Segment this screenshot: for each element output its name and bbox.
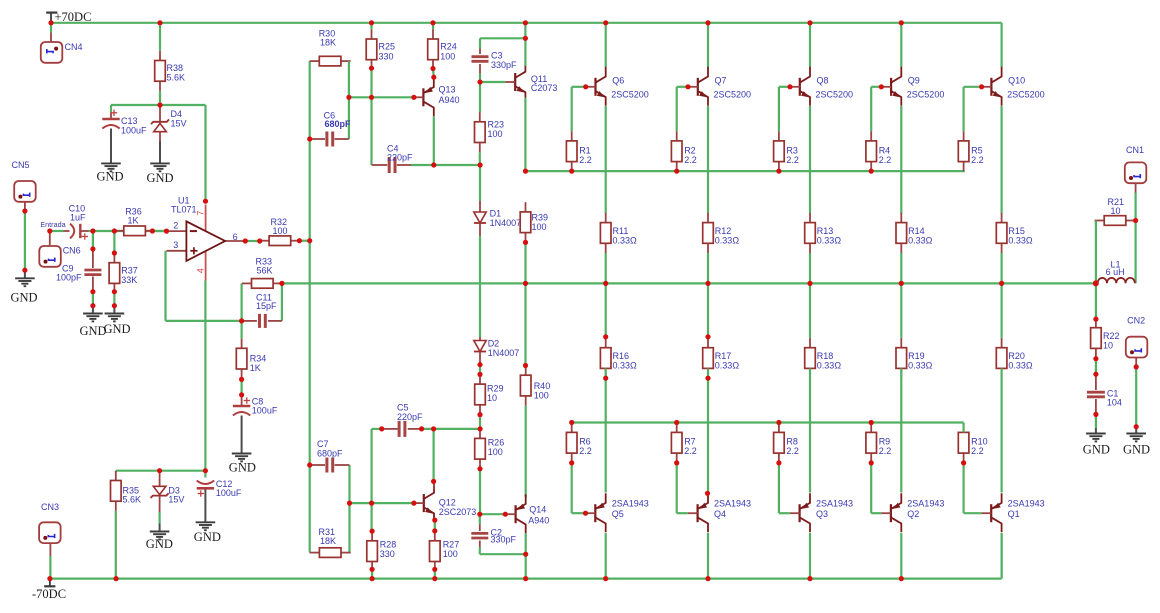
junction xyxy=(431,479,436,484)
svg-text:A940: A940 xyxy=(439,95,460,105)
junction xyxy=(603,376,608,381)
svg-text:GND: GND xyxy=(229,461,256,475)
wire xyxy=(299,240,309,242)
wire xyxy=(348,465,350,553)
junction xyxy=(307,462,312,467)
junction xyxy=(899,281,904,286)
connector CN6 xyxy=(39,231,80,267)
svg-text:R27: R27 xyxy=(443,539,460,549)
transistor Q11 xyxy=(505,62,557,101)
svg-text:100: 100 xyxy=(488,447,503,457)
svg-text:0.33Ω: 0.33Ω xyxy=(715,360,740,370)
wire xyxy=(1095,283,1097,319)
svg-text:R6: R6 xyxy=(579,437,591,447)
svg-text:CN1: CN1 xyxy=(1126,145,1144,155)
svg-text:6 uH: 6 uH xyxy=(1106,267,1125,277)
junction xyxy=(523,20,528,25)
wire xyxy=(434,520,436,531)
wire xyxy=(479,236,481,337)
wire xyxy=(111,104,206,106)
capacitor C7 xyxy=(310,439,350,473)
svg-text:15V: 15V xyxy=(168,494,184,504)
svg-text:2.2: 2.2 xyxy=(879,446,892,456)
junction xyxy=(48,20,53,25)
wire xyxy=(479,152,481,165)
transistor Q7 xyxy=(688,67,751,106)
svg-text:CN3: CN3 xyxy=(41,502,59,512)
svg-text:2SC5200: 2SC5200 xyxy=(816,89,854,99)
svg-text:GND: GND xyxy=(97,170,124,184)
wire xyxy=(1000,106,1002,214)
svg-text:104: 104 xyxy=(1107,397,1122,407)
svg-text:2.2: 2.2 xyxy=(786,155,799,165)
wire xyxy=(50,230,64,232)
ground xyxy=(11,270,38,304)
wire xyxy=(572,463,586,513)
transistor Q10 xyxy=(982,67,1045,106)
svg-text:CN5: CN5 xyxy=(12,160,30,170)
junction xyxy=(603,334,608,339)
svg-text:R5: R5 xyxy=(971,145,983,155)
junction xyxy=(523,36,528,41)
junction xyxy=(346,95,416,100)
junction xyxy=(477,362,482,367)
junction xyxy=(370,567,438,582)
junction xyxy=(1093,280,1099,286)
resistor R22 xyxy=(1091,318,1120,358)
resistor R15 xyxy=(996,213,1033,253)
junction xyxy=(979,84,984,89)
junction xyxy=(807,20,812,25)
connector CN4 xyxy=(41,33,83,63)
wire xyxy=(110,105,112,113)
resistor R37 xyxy=(109,253,138,293)
junction xyxy=(431,162,483,167)
junction xyxy=(369,20,374,25)
capacitor C4 xyxy=(372,143,414,173)
junction xyxy=(674,169,679,174)
resistor R13 xyxy=(805,213,842,253)
svg-text:100uF: 100uF xyxy=(121,125,147,135)
wire xyxy=(1000,368,1002,492)
junction xyxy=(279,281,284,286)
resistor R23 xyxy=(475,112,505,152)
svg-text:7: 7 xyxy=(195,211,205,216)
svg-text:Q8: Q8 xyxy=(817,76,829,86)
resistor R9 xyxy=(866,423,891,463)
resistor R5 xyxy=(958,131,983,171)
svg-text:1uF: 1uF xyxy=(70,212,86,222)
svg-text:3: 3 xyxy=(173,240,178,250)
resistor R30 xyxy=(310,28,351,66)
wire xyxy=(422,428,481,430)
junction xyxy=(869,460,874,465)
connector CN1 xyxy=(1125,145,1147,183)
wire xyxy=(605,23,607,67)
svg-text:18K: 18K xyxy=(320,38,336,48)
svg-text:100pF: 100pF xyxy=(56,272,82,282)
junction xyxy=(776,460,781,465)
svg-text:R34: R34 xyxy=(250,353,267,363)
junction xyxy=(1093,317,1098,322)
svg-text:2SA1943: 2SA1943 xyxy=(816,498,853,508)
resistor R34 xyxy=(236,339,266,379)
wire xyxy=(1095,359,1097,375)
junction xyxy=(47,576,118,581)
svg-text:A940: A940 xyxy=(528,515,549,525)
junction xyxy=(776,169,781,174)
junction xyxy=(961,460,966,465)
resistor R40 xyxy=(520,366,550,406)
junction xyxy=(1134,364,1139,369)
svg-text:Q10: Q10 xyxy=(1008,76,1025,86)
junction xyxy=(307,136,312,141)
junction xyxy=(239,377,244,382)
svg-text:TL071: TL071 xyxy=(171,204,197,214)
junction xyxy=(787,84,792,89)
svg-text:Q6: Q6 xyxy=(612,76,624,86)
wire xyxy=(432,23,434,30)
svg-text:C7: C7 xyxy=(317,439,329,449)
wire xyxy=(370,23,372,30)
junction xyxy=(239,392,244,397)
wire xyxy=(871,463,881,513)
svg-text:0.33Ω: 0.33Ω xyxy=(817,360,842,370)
junction xyxy=(419,426,424,431)
wire xyxy=(707,23,709,67)
junction xyxy=(90,303,95,308)
transistor Q12 xyxy=(414,483,476,522)
svg-text:D2: D2 xyxy=(488,338,500,348)
svg-text:1N4007: 1N4007 xyxy=(490,218,522,228)
wire xyxy=(900,106,902,214)
wire xyxy=(900,368,902,492)
wire xyxy=(707,283,709,338)
svg-text:2.2: 2.2 xyxy=(786,446,799,456)
svg-text:R1: R1 xyxy=(579,145,591,155)
wire xyxy=(809,283,811,338)
svg-text:0.33Ω: 0.33Ω xyxy=(1008,360,1033,370)
resistor R7 xyxy=(671,423,696,463)
wire xyxy=(348,61,350,139)
resistor R18 xyxy=(805,338,842,378)
power terminal +70DC xyxy=(46,10,91,24)
wire xyxy=(113,231,115,253)
resistor R20 xyxy=(996,338,1033,378)
junction xyxy=(47,228,52,233)
junction xyxy=(603,20,608,25)
junction xyxy=(1134,424,1139,429)
wire xyxy=(51,22,1002,24)
svg-text:0.33Ω: 0.33Ω xyxy=(908,360,933,370)
capacitor C8 xyxy=(233,395,278,454)
svg-text:2.2: 2.2 xyxy=(971,446,984,456)
wire xyxy=(900,253,902,284)
wire xyxy=(707,253,709,284)
svg-text:Q1: Q1 xyxy=(1008,509,1020,519)
resistor R16 xyxy=(600,338,637,378)
wire xyxy=(524,243,526,366)
diode D4 xyxy=(151,105,187,163)
svg-text:220pF: 220pF xyxy=(387,153,413,163)
wire xyxy=(241,379,243,394)
svg-text:15V: 15V xyxy=(171,118,187,128)
svg-text:Q13: Q13 xyxy=(439,84,456,94)
junction xyxy=(430,20,435,25)
svg-text:10: 10 xyxy=(1111,206,1121,216)
resistor R27 xyxy=(430,531,460,571)
svg-text:GND: GND xyxy=(1083,442,1110,456)
power terminal -70DC xyxy=(32,579,66,601)
capacitor C3 xyxy=(472,49,518,83)
wire xyxy=(432,69,435,78)
svg-text:2SC5200: 2SC5200 xyxy=(1007,89,1045,99)
junction xyxy=(239,318,244,323)
svg-text:C2073: C2073 xyxy=(531,83,558,93)
diode D2 xyxy=(474,337,519,365)
resistor R10 xyxy=(958,423,987,463)
resistor R28 xyxy=(367,531,397,571)
junction xyxy=(776,420,781,425)
wire xyxy=(152,230,166,232)
junction xyxy=(431,426,436,431)
junction xyxy=(523,169,528,174)
svg-text:GND: GND xyxy=(147,171,174,185)
svg-text:D4: D4 xyxy=(171,109,183,119)
junction xyxy=(807,281,812,286)
svg-text:2SA1943: 2SA1943 xyxy=(714,498,751,508)
svg-text:1N4007: 1N4007 xyxy=(488,348,520,358)
wire xyxy=(24,202,26,270)
wire xyxy=(572,87,586,131)
svg-text:CN4: CN4 xyxy=(65,42,83,52)
svg-text:2.2: 2.2 xyxy=(879,155,892,165)
resistor R17 xyxy=(703,338,740,378)
transistor Q6 xyxy=(586,67,649,106)
transistor Q1 xyxy=(981,493,1044,532)
svg-text:R39: R39 xyxy=(532,212,549,222)
junction xyxy=(432,528,437,533)
capacitor C5 xyxy=(382,402,423,437)
resistor R8 xyxy=(774,423,799,463)
wire xyxy=(480,38,525,48)
svg-text:15pF: 15pF xyxy=(256,301,277,311)
junction xyxy=(369,66,374,71)
wire xyxy=(433,116,435,165)
svg-text:Q12: Q12 xyxy=(439,497,456,507)
resistor R36 xyxy=(114,206,155,235)
svg-text:GND: GND xyxy=(146,537,173,551)
wire xyxy=(480,81,505,83)
svg-text:56K: 56K xyxy=(257,265,273,275)
svg-text:100: 100 xyxy=(440,51,455,61)
svg-text:2SC2073: 2SC2073 xyxy=(439,507,477,517)
junction xyxy=(1093,412,1098,417)
wire xyxy=(479,415,481,429)
wire xyxy=(900,533,902,579)
resistor R6 xyxy=(566,423,591,463)
wire xyxy=(281,283,283,321)
wire xyxy=(900,283,902,338)
wire xyxy=(479,469,481,514)
wire xyxy=(166,251,242,321)
capacitor C11 xyxy=(242,292,282,328)
svg-text:2: 2 xyxy=(173,220,178,230)
svg-text:4: 4 xyxy=(195,268,205,273)
svg-text:-70DC: -70DC xyxy=(32,587,66,601)
junction xyxy=(705,281,710,286)
resistor R29 xyxy=(475,374,504,414)
ground xyxy=(147,163,174,184)
capacitor C12 xyxy=(197,471,242,523)
svg-text:Q3: Q3 xyxy=(816,509,828,519)
wire xyxy=(113,292,115,306)
wire xyxy=(524,98,526,172)
wire xyxy=(964,463,982,513)
junction xyxy=(869,420,874,425)
junction xyxy=(685,84,690,89)
svg-text:R29: R29 xyxy=(487,383,504,393)
svg-text:0.33Ω: 0.33Ω xyxy=(817,235,842,245)
capacitor C10 xyxy=(64,203,89,239)
transistor Q3 xyxy=(790,493,853,532)
resistor R19 xyxy=(896,338,933,378)
wire xyxy=(241,321,243,339)
resistor R39 xyxy=(520,202,548,242)
svg-text:100: 100 xyxy=(534,390,549,400)
junction xyxy=(503,512,508,517)
junction xyxy=(157,20,162,25)
svg-text:1K: 1K xyxy=(128,215,139,225)
junction xyxy=(112,289,117,294)
transistor Q5 xyxy=(586,493,649,532)
wire xyxy=(525,406,527,498)
junction xyxy=(523,552,528,582)
svg-text:GND: GND xyxy=(1123,442,1150,456)
wire xyxy=(779,87,790,131)
wire xyxy=(572,423,964,433)
resistor R24 xyxy=(428,29,457,69)
wire xyxy=(204,105,206,201)
svg-text:R10: R10 xyxy=(971,437,988,447)
junction xyxy=(370,529,375,534)
svg-text:2SC5200: 2SC5200 xyxy=(611,89,649,99)
wire xyxy=(372,571,435,578)
svg-text:2.2: 2.2 xyxy=(579,446,592,456)
junction xyxy=(90,289,95,294)
wire xyxy=(479,365,481,375)
svg-text:R38: R38 xyxy=(167,63,184,73)
junction xyxy=(569,420,574,425)
junction xyxy=(369,501,374,506)
wire xyxy=(900,23,902,67)
svg-text:1K: 1K xyxy=(250,363,261,373)
junction xyxy=(430,66,435,71)
ground xyxy=(80,306,107,338)
wire xyxy=(1000,283,1002,338)
svg-text:R26: R26 xyxy=(488,437,505,447)
junction xyxy=(411,501,416,506)
wire xyxy=(1135,183,1137,283)
svg-text:R2: R2 xyxy=(684,145,696,155)
wire xyxy=(309,61,311,552)
svg-text:2.2: 2.2 xyxy=(971,155,984,165)
svg-text:Q14: Q14 xyxy=(529,504,546,514)
wire xyxy=(707,106,709,214)
svg-text:0.33Ω: 0.33Ω xyxy=(613,360,638,370)
svg-text:330: 330 xyxy=(379,51,394,61)
wire xyxy=(525,533,527,578)
junction xyxy=(22,208,27,272)
wire xyxy=(479,165,481,201)
svg-text:0.33Ω: 0.33Ω xyxy=(908,235,933,245)
wire xyxy=(349,96,414,98)
resistor R1 xyxy=(566,131,591,171)
wire xyxy=(707,533,709,579)
svg-text:680pF: 680pF xyxy=(317,448,343,458)
wire xyxy=(605,368,607,492)
junction xyxy=(90,246,95,251)
junction xyxy=(899,20,904,25)
svg-text:GND: GND xyxy=(104,322,131,336)
junction xyxy=(999,281,1004,286)
svg-text:18K: 18K xyxy=(320,536,336,546)
svg-text:100: 100 xyxy=(273,226,288,236)
svg-text:33K: 33K xyxy=(121,275,137,285)
resistor R26 xyxy=(475,429,505,469)
resistor R32 xyxy=(259,217,300,245)
svg-text:Q4: Q4 xyxy=(714,509,726,519)
capacitor C9 xyxy=(56,249,101,292)
wire xyxy=(241,283,243,321)
junction xyxy=(705,376,710,381)
junction xyxy=(379,426,384,431)
capacitor C6 xyxy=(310,110,351,146)
wire xyxy=(116,470,206,472)
wire xyxy=(526,170,965,172)
junction xyxy=(157,102,162,107)
junction xyxy=(583,84,588,89)
junction xyxy=(705,491,710,496)
svg-text:R3: R3 xyxy=(786,145,798,155)
resistor R3 xyxy=(774,131,799,171)
svg-text:R28: R28 xyxy=(380,539,397,549)
wire xyxy=(605,283,607,338)
svg-text:0.33Ω: 0.33Ω xyxy=(613,235,638,245)
svg-text:10: 10 xyxy=(1103,340,1113,350)
svg-text:330pF: 330pF xyxy=(491,534,517,544)
svg-text:10: 10 xyxy=(487,393,497,403)
wire xyxy=(350,502,414,504)
ground xyxy=(229,454,256,475)
svg-text:2.2: 2.2 xyxy=(684,155,697,165)
resistor R12 xyxy=(703,213,740,253)
wire xyxy=(605,533,607,579)
capacitor C1 xyxy=(1087,374,1122,414)
resistor R31 xyxy=(310,527,351,558)
transistor Q2 xyxy=(881,493,944,532)
connector CN3 xyxy=(39,502,61,543)
svg-text:680pF: 680pF xyxy=(325,119,352,129)
wire xyxy=(524,23,526,66)
svg-text:Q9: Q9 xyxy=(908,76,920,86)
resistor R25 xyxy=(366,29,395,69)
svg-text:2SA1943: 2SA1943 xyxy=(907,498,944,508)
svg-text:R4: R4 xyxy=(879,145,891,155)
wire xyxy=(1000,253,1002,284)
svg-text:2.2: 2.2 xyxy=(684,446,697,456)
resistor R4 xyxy=(866,131,891,171)
